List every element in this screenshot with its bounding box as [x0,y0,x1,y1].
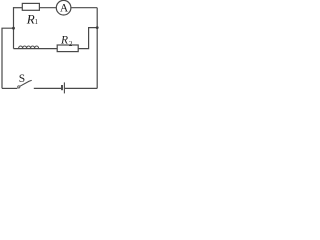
svg-text:R: R [60,35,68,47]
svg-text:A: A [60,3,69,15]
svg-text:1: 1 [35,18,39,26]
svg-text:2: 2 [69,40,73,48]
svg-text:S: S [19,73,25,85]
svg-text:R: R [26,12,35,27]
